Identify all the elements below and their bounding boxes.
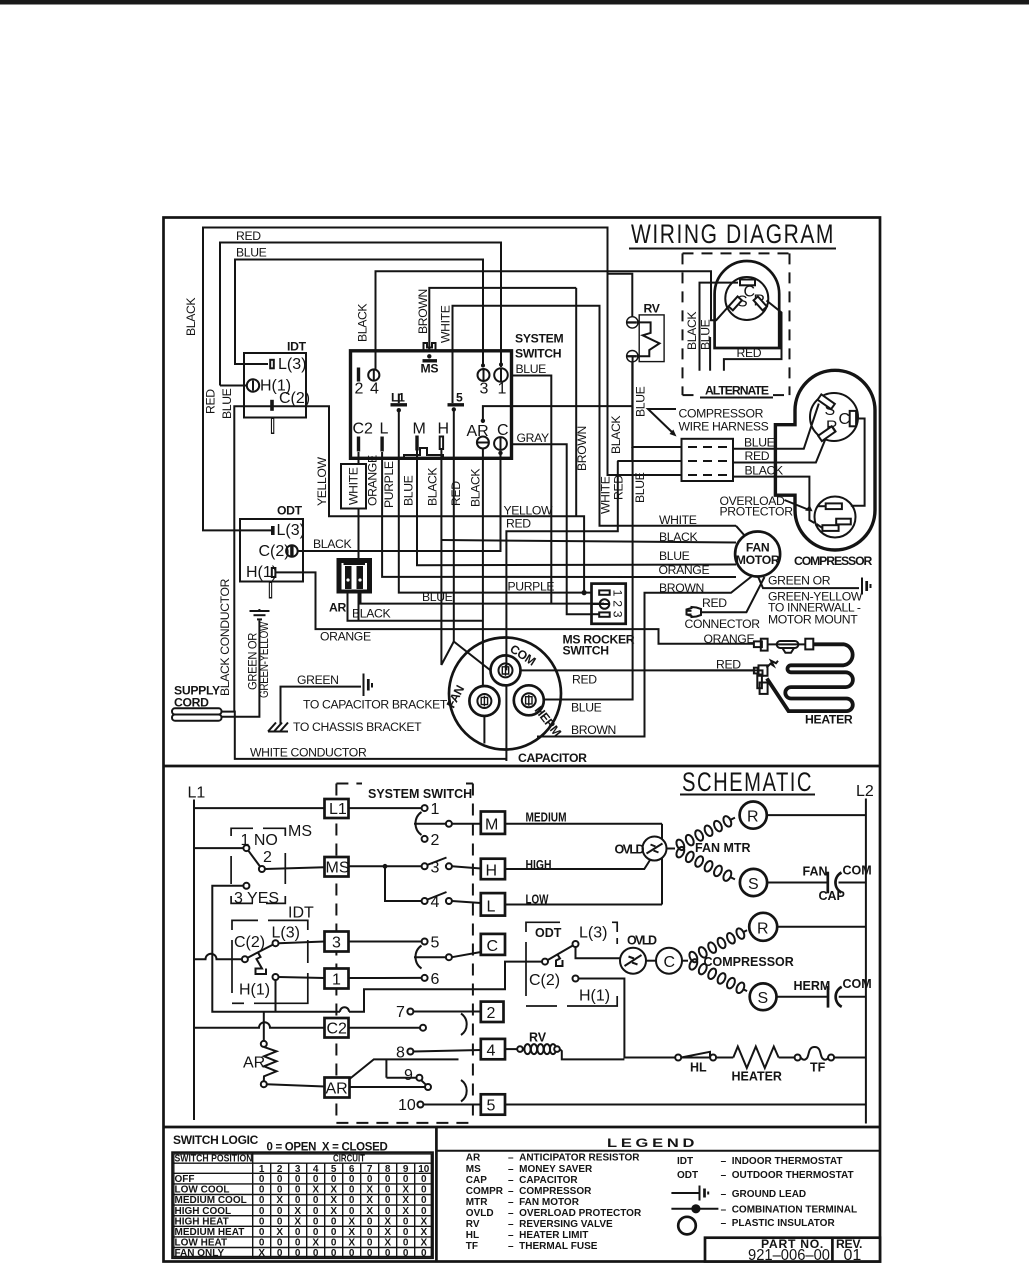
svg-text:SWITCH LOGIC: SWITCH LOGIC <box>173 1133 258 1147</box>
svg-text:MS: MS <box>288 823 312 840</box>
svg-text:0: 0 <box>295 1185 301 1196</box>
svg-text:C(2): C(2) <box>529 972 560 989</box>
svg-text:0: 0 <box>385 1174 391 1185</box>
wire WHITE from 5 terminal across and down <box>453 306 737 526</box>
wire AR bottom to AR box <box>267 1084 325 1086</box>
svg-text:BLACK: BLACK <box>184 298 198 336</box>
svg-text:ODT: ODT <box>535 926 562 940</box>
compressor terminal circle <box>810 393 858 441</box>
alternate terminal circle <box>725 277 768 320</box>
terminal C(2) ODT <box>286 545 298 557</box>
svg-text:X: X <box>402 1195 409 1206</box>
svg-text:HIGH HEAT: HIGH HEAT <box>175 1216 229 1227</box>
svg-text:BLUE: BLUE <box>220 388 234 419</box>
svg-text:0: 0 <box>295 1248 301 1259</box>
heater resistor (schematic) <box>733 1047 778 1069</box>
svg-text:C: C <box>497 422 509 439</box>
svg-text:YELLOW: YELLOW <box>504 504 554 518</box>
svg-text:X: X <box>366 1185 373 1196</box>
wire IDT L3 to 3 box <box>279 942 325 944</box>
terminal H(1) ODT <box>272 568 276 577</box>
svg-text:WHITE: WHITE <box>439 305 453 343</box>
wire GRAY from switch C to rocker 3 <box>512 444 592 614</box>
ground symbol innerwall <box>862 578 871 595</box>
AR anticipator resistor component <box>329 558 372 615</box>
svg-text:HEATER: HEATER <box>805 713 853 727</box>
svg-text:L2: L2 <box>856 783 874 800</box>
wire contact 10 to 5 box <box>423 1104 480 1106</box>
row C feed: arc to circle to C box <box>414 956 446 958</box>
svg-text:BLUE: BLUE <box>634 386 648 417</box>
svg-text:0: 0 <box>259 1238 265 1249</box>
svg-text:C: C <box>664 954 676 971</box>
svg-text:0: 0 <box>385 1206 391 1217</box>
svg-text:ORANGE: ORANGE <box>659 563 710 577</box>
svg-text:H: H <box>486 863 498 880</box>
row H: second circle and wire to H box <box>446 863 452 869</box>
svg-text:X: X <box>330 1206 337 1217</box>
wire contact 7 to 2 box <box>413 1011 480 1013</box>
svg-text:COM: COM <box>843 864 872 878</box>
wire green-yellow conductor from supply cord to ground <box>222 621 259 717</box>
svg-text:ORANGE: ORANGE <box>366 455 380 506</box>
L1 rail <box>193 800 195 1121</box>
svg-text:0: 0 <box>313 1206 319 1217</box>
svg-text:0: 0 <box>421 1248 427 1259</box>
switch terminal AR <box>477 437 489 449</box>
svg-text:COMPRESSOR: COMPRESSOR <box>704 955 794 969</box>
svg-text:0: 0 <box>385 1185 391 1196</box>
svg-text:TF: TF <box>810 1061 826 1075</box>
wire alternate RED loop at bottom <box>724 301 782 371</box>
wire capacitor HERM BLUE up to harness/RV <box>544 356 633 699</box>
svg-text:0: 0 <box>331 1248 337 1259</box>
wire contact 8 to 4 box <box>413 1050 480 1052</box>
svg-text:SWITCH POSITION: SWITCH POSITION <box>175 1154 253 1165</box>
wire L1 to L1-box to contact 1 <box>194 807 325 809</box>
svg-text:PROTECTOR: PROTECTOR <box>720 505 794 519</box>
section divider wiring/schematic <box>164 765 881 768</box>
svg-text:CAP: CAP <box>819 889 845 903</box>
svg-text:BLUE: BLUE <box>402 475 416 506</box>
wire link harness rows <box>631 447 633 461</box>
svg-text:HL: HL <box>690 1061 707 1075</box>
svg-text:BLUE: BLUE <box>516 362 547 376</box>
svg-text:YELLOW: YELLOW <box>315 456 329 506</box>
svg-text:WHITE CONDUCTOR: WHITE CONDUCTOR <box>250 746 367 760</box>
svg-text:0: 0 <box>277 1174 283 1185</box>
svg-text:X: X <box>384 1238 391 1249</box>
svg-text:BLUE: BLUE <box>659 549 690 563</box>
svg-text:0: 0 <box>385 1195 391 1206</box>
switch terminal H <box>440 437 443 450</box>
svg-text:L(3): L(3) <box>272 925 300 942</box>
IDT dashed frame <box>232 920 308 1003</box>
svg-text:BLUE: BLUE <box>633 472 647 503</box>
section divider schematic/tables <box>164 1126 881 1129</box>
svg-text:MOTOR MOUNT: MOTOR MOUNT <box>768 613 858 627</box>
svg-text:GREEN OR: GREEN OR <box>768 574 831 588</box>
wire PURPLE L1 drop to rocker 1 <box>399 410 592 592</box>
wire R comp to L2 <box>777 926 866 928</box>
svg-text:RED: RED <box>449 481 463 506</box>
svg-text:OFF: OFF <box>175 1174 195 1185</box>
contact 1 circle <box>422 805 428 811</box>
switch bottom contour detail <box>404 448 443 458</box>
svg-text:BROWN: BROWN <box>575 426 589 471</box>
svg-text:0: 0 <box>277 1238 283 1249</box>
svg-text:1: 1 <box>611 590 625 597</box>
row L: second circle and wire to L box <box>446 898 452 904</box>
svg-text:– MONEY SAVER: – MONEY SAVER <box>508 1164 593 1175</box>
top black banner bar <box>0 0 1029 5</box>
wire GREEN with capacitor bracket stub <box>281 687 362 725</box>
MS relay dashed frame <box>231 828 285 903</box>
svg-text:3: 3 <box>611 611 625 618</box>
svg-text:GREEN: GREEN <box>297 673 339 687</box>
svg-text:CORD: CORD <box>174 696 209 710</box>
svg-text:MOTOR: MOTOR <box>736 553 780 567</box>
wire H box to OVLD fan <box>505 859 651 870</box>
svg-text:X: X <box>384 1227 391 1238</box>
svg-text:TO CHASSIS BRACKET: TO CHASSIS BRACKET <box>293 720 422 734</box>
svg-text:2: 2 <box>355 381 364 398</box>
svg-text:MEDIUM HEAT: MEDIUM HEAT <box>175 1227 245 1238</box>
svg-text:0: 0 <box>367 1248 373 1259</box>
svg-text:L: L <box>380 421 389 438</box>
compressor wire harness box <box>682 439 734 481</box>
S terminal slanted pad <box>818 394 835 409</box>
svg-text:COMPR: COMPR <box>466 1186 504 1197</box>
wire jump arc on 1011.7 <box>340 1007 349 1012</box>
contact 4 circle <box>422 898 428 904</box>
terminal L(3) IDT <box>270 360 274 369</box>
svg-text:IDT: IDT <box>677 1156 693 1167</box>
capacitor HERM terminal <box>514 685 544 715</box>
svg-text:AR: AR <box>326 1081 348 1098</box>
svg-text:BLUE: BLUE <box>422 590 453 604</box>
switch logic table grid <box>172 1152 433 1258</box>
svg-text:CONNECTOR: CONNECTOR <box>685 617 761 631</box>
wire TF to L2 <box>834 1057 866 1059</box>
svg-text:BLACK: BLACK <box>426 468 440 506</box>
R pad slanted <box>754 296 767 310</box>
contact 6 circle <box>422 975 428 981</box>
wire alternate BLUE hanging lead <box>709 337 711 371</box>
svg-text:SWITCH: SWITCH <box>563 644 609 658</box>
svg-text:OVLD: OVLD <box>627 934 657 948</box>
svg-text:WHITE: WHITE <box>599 476 613 514</box>
contact 8 <box>407 1049 413 1055</box>
svg-text:0: 0 <box>421 1185 427 1196</box>
svg-text:X: X <box>312 1185 319 1196</box>
svg-text:– COMBINATION TERMINAL: – COMBINATION TERMINAL <box>721 1205 857 1216</box>
capacitor FAN terminal <box>469 686 499 716</box>
RV coil (schematic) <box>517 1031 560 1055</box>
wire alternate BLACK drop <box>700 283 739 371</box>
wire GREEN motor mount ground <box>758 577 859 589</box>
svg-text:5: 5 <box>487 1098 496 1115</box>
svg-text:0: 0 <box>385 1248 391 1259</box>
contact 2 circle <box>422 836 428 842</box>
switch terminal 4 <box>368 369 379 380</box>
ground symbol green conductor <box>250 609 270 619</box>
svg-text:0: 0 <box>367 1174 373 1185</box>
svg-text:RV: RV <box>529 1031 547 1045</box>
svg-text:X: X <box>276 1195 283 1206</box>
box 2 <box>481 1002 504 1022</box>
svg-text:0: 0 <box>295 1227 301 1238</box>
svg-text:L(3): L(3) <box>277 522 305 539</box>
contact 10 <box>417 1102 423 1108</box>
svg-text:X: X <box>258 1248 265 1259</box>
ODT blade and bimetal <box>548 946 573 961</box>
wire BLUE from AR to rocker 2 <box>361 594 605 604</box>
wire 4 box to RV coil <box>505 1048 517 1050</box>
wire M box to fan branch vertical <box>505 823 662 825</box>
svg-text:HERM: HERM <box>794 979 831 993</box>
svg-text:RED: RED <box>506 517 531 531</box>
svg-text:IDT: IDT <box>287 340 307 354</box>
svg-text:R: R <box>747 809 759 826</box>
wire white into fan <box>736 526 745 536</box>
contact 5 circle <box>422 939 428 945</box>
svg-text:2: 2 <box>263 849 272 866</box>
svg-text:COMPRESSOR: COMPRESSOR <box>679 407 764 421</box>
svg-text:BROWN: BROWN <box>659 581 704 595</box>
wire MS box to contact 3 with junction <box>349 865 422 867</box>
svg-text:RV: RV <box>466 1219 480 1230</box>
OVLD comp circle <box>620 948 646 974</box>
wire 1 box to contact 6 <box>349 977 422 979</box>
svg-text:RED: RED <box>702 596 727 610</box>
wire BLACK from AR to FAN drop <box>348 594 483 621</box>
switch MS pushbutton at top <box>421 343 439 376</box>
svg-text:C(2): C(2) <box>234 934 265 951</box>
wire BLACK from ODT C(2) to switch C drop <box>298 453 501 551</box>
svg-text:RED: RED <box>572 673 597 687</box>
MS contact 3 wire down-around to AR row <box>212 886 340 1012</box>
legend underline <box>436 1150 880 1152</box>
svg-text:0: 0 <box>295 1195 301 1206</box>
svg-text:0: 0 <box>259 1227 265 1238</box>
svg-text:– HEATER LIMIT: – HEATER LIMIT <box>508 1230 588 1241</box>
chassis bracket hatch symbol <box>268 723 288 732</box>
wire C2 box to contact circle <box>349 1027 421 1029</box>
svg-text:L(3): L(3) <box>579 925 607 942</box>
svg-text:BLUE: BLUE <box>744 436 775 450</box>
box C2 <box>325 1018 349 1038</box>
svg-text:0: 0 <box>421 1195 427 1206</box>
wire ODT L3 down to OVLD comp <box>576 947 621 958</box>
RV zigzag element <box>637 322 660 356</box>
wire L box to fan branch <box>505 904 662 906</box>
svg-text:0: 0 <box>367 1238 373 1249</box>
wire harness RED to compressor R <box>733 435 827 463</box>
svg-text:0: 0 <box>313 1216 319 1227</box>
svg-text:0: 0 <box>367 1216 373 1227</box>
svg-text:X: X <box>276 1227 283 1238</box>
svg-text:HIGH COOL: HIGH COOL <box>175 1206 232 1217</box>
svg-text:LOW HEAT: LOW HEAT <box>175 1238 228 1249</box>
MS contact 3 <box>243 883 249 889</box>
wire 5-terminal drop to capacitor COM diagonal <box>454 409 491 670</box>
heater red plug cluster <box>754 661 778 694</box>
svg-text:1: 1 <box>498 381 507 398</box>
svg-text:ODT: ODT <box>677 1170 698 1181</box>
compressor outline stadium with notch <box>775 370 875 550</box>
svg-text:0: 0 <box>259 1216 265 1227</box>
svg-text:PURPLE: PURPLE <box>382 461 396 508</box>
svg-text:3 YES: 3 YES <box>234 890 279 907</box>
svg-text:BROWN: BROWN <box>571 723 616 737</box>
svg-text:0: 0 <box>259 1185 265 1196</box>
svg-text:RV: RV <box>644 302 661 316</box>
wire capacitor COM to RED run right <box>521 670 763 677</box>
svg-text:0: 0 <box>295 1238 301 1249</box>
wire BLACK branch to RV top <box>608 274 633 317</box>
svg-text:0: 0 <box>421 1206 427 1217</box>
svg-text:01: 01 <box>844 1247 862 1264</box>
wire MS3 junction down to contact 4 <box>385 866 422 901</box>
wire RV bottom to harness BLUE row <box>632 362 681 447</box>
ODT thermostat box <box>240 504 305 599</box>
wire S fan to cap <box>767 882 828 884</box>
fan branch vertical M-L <box>661 824 663 905</box>
svg-text:BROWN: BROWN <box>416 289 430 334</box>
svg-text:CAPACITOR: CAPACITOR <box>518 751 587 765</box>
supply cord symbol <box>172 684 222 721</box>
svg-text:BLUE: BLUE <box>571 701 602 715</box>
connector symbol <box>687 607 702 617</box>
svg-text:X: X <box>366 1206 373 1217</box>
SYSTEM SWITCH box <box>351 351 512 459</box>
svg-text:2: 2 <box>487 1005 496 1022</box>
wire H tee to fan BLACK <box>441 540 736 543</box>
svg-text:– OVERLOAD PROTECTOR: – OVERLOAD PROTECTOR <box>508 1208 642 1219</box>
svg-text:MS: MS <box>466 1164 481 1175</box>
box L <box>481 893 505 916</box>
svg-text:R: R <box>757 921 769 938</box>
box AR (schematic) <box>325 1078 350 1098</box>
circle C comp <box>656 948 682 974</box>
svg-text:L(3): L(3) <box>278 356 306 373</box>
svg-text:8: 8 <box>396 1045 405 1062</box>
svg-text:C: C <box>839 411 851 428</box>
svg-text:RED: RED <box>204 389 218 414</box>
svg-text:0: 0 <box>349 1185 355 1196</box>
svg-text:2: 2 <box>431 832 440 849</box>
wafer arc 7-C2 <box>461 1014 467 1036</box>
wafer arc contacts 5-6 <box>415 946 421 969</box>
svg-text:H: H <box>438 421 450 438</box>
switch terminal L1 <box>391 391 408 413</box>
table data cells <box>258 1174 427 1259</box>
svg-text:0: 0 <box>421 1174 427 1185</box>
svg-text:0: 0 <box>313 1174 319 1185</box>
svg-text:X: X <box>330 1195 337 1206</box>
wire heater to TF <box>779 1057 795 1059</box>
svg-text:COMPRESSOR: COMPRESSOR <box>794 554 872 568</box>
wire from ODT H(1) to ORANGE run <box>276 572 754 643</box>
svg-text:AR: AR <box>466 1153 481 1164</box>
wire rocker 3 stub <box>592 613 600 615</box>
svg-text:1: 1 <box>431 801 440 818</box>
box 1 <box>325 969 349 989</box>
wire BLACK conductor: supply cord up to C(2)-IDT junction <box>234 406 272 711</box>
svg-text:BLUE: BLUE <box>236 246 267 260</box>
heater element serpentine <box>767 644 853 711</box>
wire RV coil down to heater row <box>560 1049 625 1059</box>
ODT contact H1 <box>573 976 579 982</box>
compressor overload circle <box>815 497 856 538</box>
svg-text:7: 7 <box>396 1004 405 1021</box>
RV top terminal <box>627 317 638 328</box>
compressor coils <box>682 925 750 996</box>
wire harness BLUE to compressor S <box>733 404 819 449</box>
svg-text:ALTERNATE: ALTERNATE <box>705 384 770 398</box>
IDT contact L3 <box>273 940 279 946</box>
svg-text:WIRING DIAGRAM: WIRING DIAGRAM <box>631 219 835 249</box>
svg-text:BLACK: BLACK <box>313 537 351 551</box>
svg-text:AR: AR <box>329 601 347 615</box>
wire RED connector to fan motor <box>701 577 765 612</box>
wire FAN terminal stub down <box>483 716 485 743</box>
wafer arc contacts 1-2 <box>415 812 421 835</box>
wire HL to heater resistor <box>716 1057 733 1059</box>
svg-text:M: M <box>485 817 498 834</box>
svg-text:– INDOOR THERMOSTAT: – INDOOR THERMOSTAT <box>721 1156 843 1167</box>
svg-text:X: X <box>348 1238 355 1249</box>
circle S comp <box>750 983 777 1010</box>
svg-text:– REVERSING VALVE: – REVERSING VALVE <box>508 1219 613 1230</box>
HERM CAP symbol <box>828 986 866 1008</box>
svg-text:921–006–00: 921–006–00 <box>748 1247 830 1264</box>
svg-text:C: C <box>487 938 499 955</box>
svg-text:0: 0 <box>277 1206 283 1217</box>
svg-text:X: X <box>402 1206 409 1217</box>
svg-text:FAN ONLY: FAN ONLY <box>175 1248 225 1259</box>
svg-text:RED: RED <box>236 229 261 243</box>
wire BLUE from switch 1 to AR/rocker line <box>512 376 552 604</box>
svg-text:X: X <box>330 1185 337 1196</box>
ground lead symbol drawing <box>671 1186 708 1201</box>
svg-text:– ANTICIPATOR RESISTOR: – ANTICIPATOR RESISTOR <box>508 1153 640 1164</box>
svg-text:BLACK: BLACK <box>659 530 697 544</box>
svg-text:TO CAPACITOR BRACKET: TO CAPACITOR BRACKET <box>303 698 448 712</box>
svg-text:H(1): H(1) <box>579 988 610 1005</box>
AR resistor (schematic) <box>243 1041 277 1087</box>
svg-text:6: 6 <box>431 971 440 988</box>
svg-text:IDT: IDT <box>288 905 314 922</box>
orange plug <box>754 641 762 647</box>
svg-text:0: 0 <box>259 1174 265 1185</box>
svg-text:X: X <box>420 1238 427 1249</box>
wire harness RED drop <box>617 460 681 462</box>
wire 3 box to contact 5 <box>349 941 422 943</box>
wire L1 to C2 box with jump <box>194 1022 325 1028</box>
svg-text:0: 0 <box>259 1195 265 1206</box>
wire from switch AR up and over to fan WHITE drop <box>483 406 632 421</box>
svg-text:– PLASTIC INSULATOR: – PLASTIC INSULATOR <box>721 1218 836 1229</box>
svg-text:M: M <box>413 421 426 438</box>
svg-text:OVLD: OVLD <box>466 1208 494 1219</box>
svg-text:0: 0 <box>403 1227 409 1238</box>
switch terminal 5 <box>448 391 465 412</box>
svg-text:AR: AR <box>243 1055 265 1072</box>
terminal H(1) IDT <box>247 379 259 391</box>
svg-text:4: 4 <box>487 1043 496 1060</box>
